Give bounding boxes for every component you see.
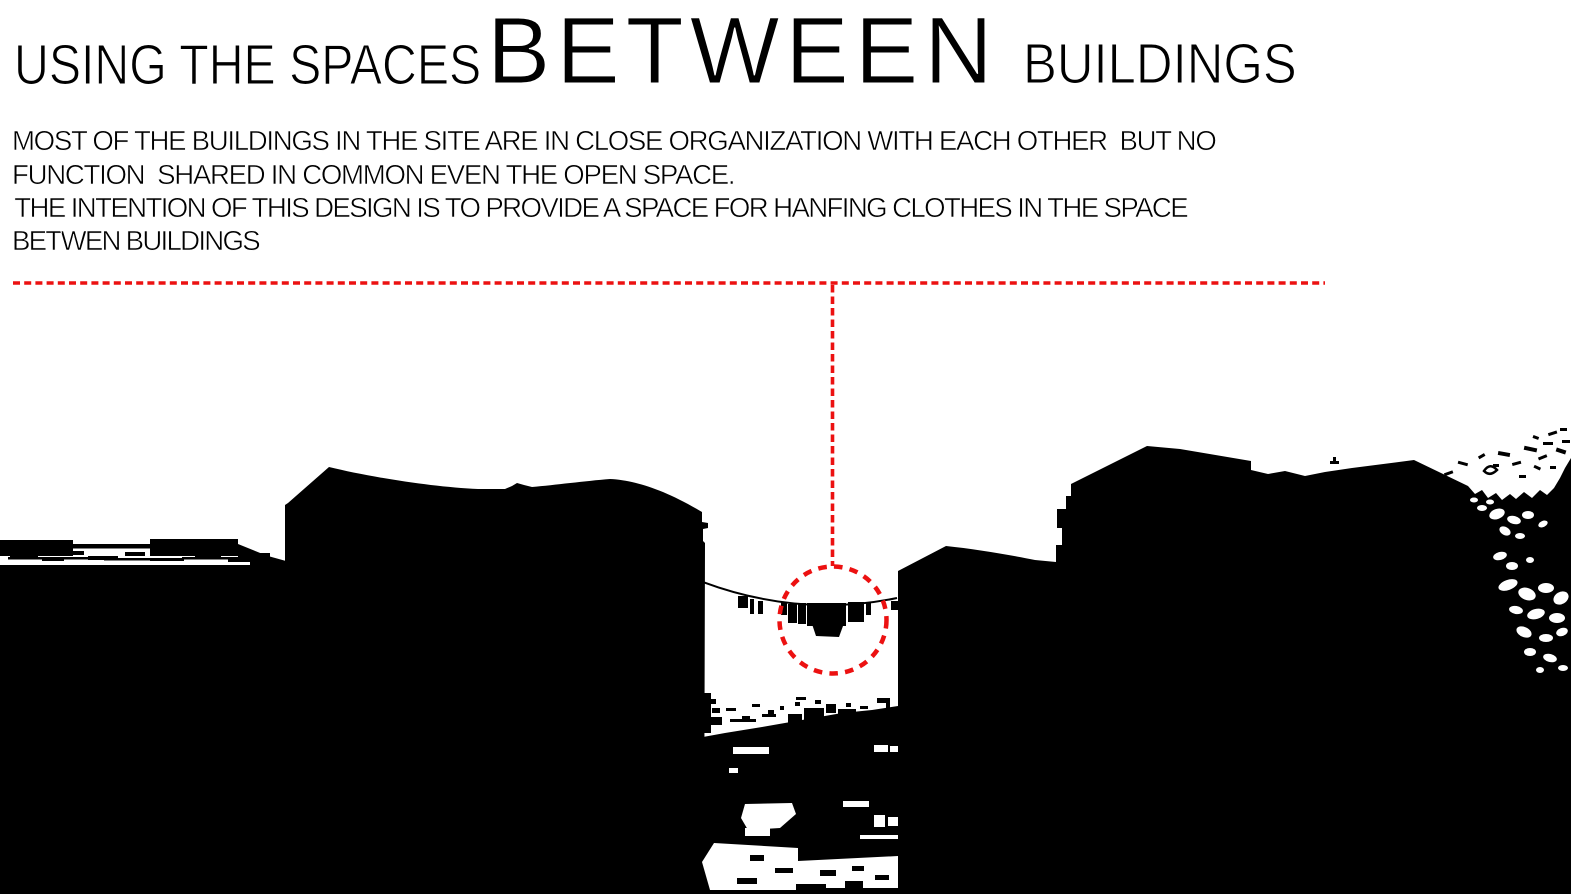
red dashed highlight circle: [780, 567, 887, 674]
title: BETWEEN: [487, 1, 999, 101]
water reflections white patches: [702, 745, 898, 890]
clothes on line: [738, 596, 898, 637]
body paragraph line 1: [12, 126, 1215, 156]
antenna on right roof: [1330, 457, 1339, 464]
red dashed horizontal leader line: [13, 281, 1325, 285]
body paragraph line 4: [12, 226, 259, 256]
title: USING THE SPACES: [14, 35, 481, 95]
left building silhouette: [0, 539, 286, 894]
reflection speckles: [737, 855, 889, 890]
foliage white pockets: [1470, 498, 1571, 674]
foliage twigs in sky: [1444, 428, 1570, 478]
alley plants left: [704, 693, 776, 733]
alley pole right: [877, 698, 890, 731]
alley ground mass: [703, 706, 898, 894]
alley junk middle: [726, 697, 870, 723]
title: BUILDINGS: [1023, 34, 1297, 94]
right buildings silhouette: [898, 446, 1571, 894]
clothesline wire: [703, 582, 897, 605]
middle building silhouette: [285, 467, 708, 894]
body paragraph line 2: [12, 160, 734, 190]
red dashed vertical leader line: [831, 285, 835, 566]
body paragraph line 3: [14, 193, 1187, 223]
